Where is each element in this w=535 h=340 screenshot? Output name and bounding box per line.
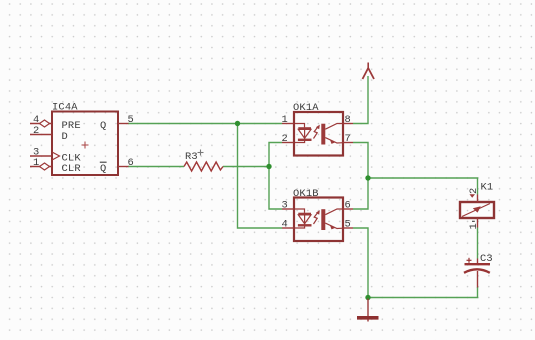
wire from OK1A pin8 up to VCC [353,76,368,124]
node C junction [365,175,370,180]
svg-text:6: 6 [128,157,134,169]
R3 origin cross [198,150,204,156]
wire branch node B up to OK1A pin2 [269,143,282,167]
svg-text:1: 1 [282,114,288,126]
flip-flop IC4A [30,112,129,176]
svg-text:2: 2 [468,188,480,194]
node A junction on Q net [235,121,240,126]
OK1B LED [295,209,312,228]
wire branch from node A down to OK1B pin4 [238,124,283,229]
OK1A phototransistor [321,124,343,145]
pin number 1 [282,114,288,126]
pin number 2 [282,133,288,145]
pin name D [62,131,68,143]
wire from relay K1 coil bottom to capacitor C3 top [477,228,479,259]
resistor R3 [184,162,223,171]
svg-text:Q: Q [100,120,106,132]
ground symbol [357,299,379,322]
label OK1B [293,188,319,200]
svg-text:5: 5 [128,114,134,126]
svg-text:1: 1 [33,157,39,169]
CLK edge triangle [52,152,60,160]
svg-text:C3: C3 [480,253,493,265]
pin 4 inversion bubble (PRE) [40,120,50,127]
svg-text:OK1B: OK1B [293,188,319,200]
svg-text:CLR: CLR [62,163,81,175]
svg-text:K1: K1 [481,182,494,194]
label R3 [185,151,198,163]
pin name PRE [62,120,81,132]
svg-text:7: 7 [345,133,351,145]
pin name Qbar [100,162,107,175]
pin number 4 [33,114,39,126]
label IC4A [52,102,78,114]
node B junction on Qbar net [266,164,271,169]
svg-text:D: D [62,131,68,143]
svg-text:IC4A: IC4A [52,102,78,114]
node D junction at ground [365,295,370,300]
wire net N$1 from IC4A Q to OK1A pin1 [128,123,282,125]
svg-text:R3: R3 [185,151,198,163]
label C3 [480,253,493,265]
pin number 7 [345,133,351,145]
label K1 [481,182,494,194]
K1 pin name 1 (rotated) [468,221,480,229]
OK1B light arrow [314,210,320,224]
capacitor C3 [464,259,490,288]
pin number 6 [345,200,351,212]
svg-text:4: 4 [282,219,288,231]
pin name Q [100,120,106,132]
pin number 8 [345,114,351,126]
OK1B phototransistor [321,209,343,230]
optocoupler OK1B [282,198,353,242]
wire from IC4A Qbar to resistor R3 [128,166,184,168]
pin number 1 [33,157,39,169]
wire from node C to relay K1 coil top [368,178,478,195]
OK1A light arrow [314,125,320,139]
wire from node D to capacitor C3 bottom [368,287,478,298]
pin 1 inversion bubble (CLR) [40,163,50,170]
svg-text:6: 6 [345,200,351,212]
C3 plus sign [467,258,472,263]
VCC supply symbol [363,63,375,80]
svg-text:8: 8 [345,114,351,126]
pin name CLR [62,163,81,175]
pin name CLK [62,153,82,165]
pin number 4 [282,219,288,231]
optocoupler OK1A [282,112,353,156]
svg-text:OK1A: OK1A [293,102,319,114]
pin number 3 [282,200,288,212]
K1 pin name 2 (rotated) [468,188,480,198]
wire from resistor R3 to node B [223,166,269,168]
pin number 5 [345,219,351,231]
svg-text:5: 5 [345,219,351,231]
pin number 3 [33,147,39,159]
svg-text:1: 1 [468,223,480,229]
OK1A LED [295,124,312,143]
svg-text:Q: Q [100,163,106,175]
label OK1A [293,102,319,114]
svg-text:3: 3 [282,200,288,212]
pin number 5 [128,114,134,126]
pin number 2 [33,125,39,137]
wire from OK1A pin7 down to node C and OK1B pin6 [353,143,368,210]
relay K1 coil [460,195,494,228]
IC4A origin cross [82,142,89,149]
wire branch node B down to OK1B pin3 [269,167,282,210]
svg-text:2: 2 [33,125,39,137]
wire from OK1B pin5 down to node D [353,228,368,298]
pin number 6 [128,157,134,169]
svg-text:2: 2 [282,133,288,145]
